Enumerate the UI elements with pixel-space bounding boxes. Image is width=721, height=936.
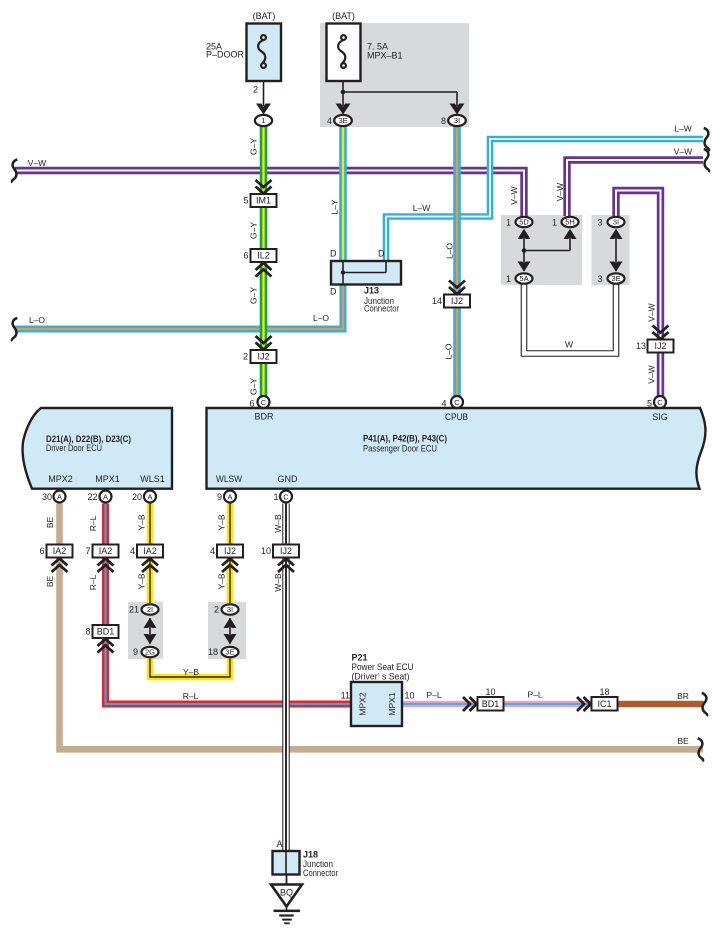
svg-text:8: 8 xyxy=(85,627,90,637)
svg-text:BDR: BDR xyxy=(254,412,274,422)
svg-text:30: 30 xyxy=(42,492,52,502)
svg-text:C: C xyxy=(454,398,460,407)
svg-text:MPX2: MPX2 xyxy=(48,474,73,484)
svg-text:L–O: L–O xyxy=(445,243,455,259)
svg-text:4: 4 xyxy=(441,399,446,409)
svg-text:18: 18 xyxy=(208,647,218,657)
svg-text:IJ2: IJ2 xyxy=(224,546,236,556)
svg-text:WLSW: WLSW xyxy=(216,474,242,484)
svg-text:GND: GND xyxy=(278,474,299,484)
svg-text:14: 14 xyxy=(432,296,442,306)
svg-text:D: D xyxy=(330,287,337,297)
svg-text:R–L: R–L xyxy=(88,515,98,531)
svg-text:J18: J18 xyxy=(303,850,318,860)
svg-text:9: 9 xyxy=(217,492,222,502)
svg-text:W–B: W–B xyxy=(273,514,283,533)
svg-text:G–Y: G–Y xyxy=(248,138,258,155)
svg-text:Power Seat ECU: Power Seat ECU xyxy=(352,662,414,672)
svg-text:4: 4 xyxy=(210,546,215,556)
svg-text:W: W xyxy=(565,340,573,350)
svg-text:MPX2: MPX2 xyxy=(358,692,368,715)
svg-text:BD1: BD1 xyxy=(482,699,500,709)
svg-text:Driver Door ECU: Driver Door ECU xyxy=(46,443,102,453)
svg-text:4: 4 xyxy=(327,116,332,126)
svg-text:P41(A), P42(B), P43(C): P41(A), P42(B), P43(C) xyxy=(363,434,447,444)
svg-text:21: 21 xyxy=(129,605,139,615)
svg-text:BE: BE xyxy=(677,736,689,746)
svg-text:Y–B: Y–B xyxy=(217,514,227,530)
svg-text:IM1: IM1 xyxy=(256,196,271,206)
svg-text:5: 5 xyxy=(647,399,652,409)
svg-text:V–W: V–W xyxy=(509,186,519,204)
svg-text:G–Y: G–Y xyxy=(248,222,258,239)
svg-text:3E: 3E xyxy=(225,648,234,657)
svg-text:IJ2: IJ2 xyxy=(654,341,666,351)
svg-text:18: 18 xyxy=(599,687,609,697)
svg-text:C: C xyxy=(283,493,289,502)
svg-text:A: A xyxy=(227,493,232,502)
svg-text:6: 6 xyxy=(243,251,248,261)
svg-text:R–L: R–L xyxy=(88,574,98,590)
svg-text:3: 3 xyxy=(597,218,602,228)
svg-text:P–L: P–L xyxy=(527,690,542,700)
svg-text:2: 2 xyxy=(253,85,258,95)
svg-text:10: 10 xyxy=(261,546,271,556)
svg-text:A: A xyxy=(103,493,108,502)
svg-text:3I: 3I xyxy=(227,605,233,614)
svg-text:C: C xyxy=(261,398,267,407)
svg-text:1: 1 xyxy=(506,274,511,284)
svg-text:D: D xyxy=(330,249,337,259)
svg-text:CPUB: CPUB xyxy=(445,412,468,422)
svg-text:6: 6 xyxy=(39,546,44,556)
svg-text:P21: P21 xyxy=(352,653,368,663)
svg-text:A: A xyxy=(276,839,282,849)
svg-text:3I: 3I xyxy=(454,116,460,125)
svg-text:Y–B: Y–B xyxy=(217,573,227,589)
svg-text:1: 1 xyxy=(552,218,557,228)
svg-text:1: 1 xyxy=(273,492,278,502)
svg-text:8: 8 xyxy=(441,116,446,126)
svg-text:P–L: P–L xyxy=(426,690,441,700)
svg-text:BQ: BQ xyxy=(280,888,293,898)
svg-text:10: 10 xyxy=(485,687,495,697)
svg-text:5H: 5H xyxy=(565,218,575,227)
svg-text:D: D xyxy=(378,249,385,259)
svg-text:6: 6 xyxy=(249,399,254,409)
svg-text:IJ2: IJ2 xyxy=(280,546,292,556)
svg-text:2: 2 xyxy=(243,352,248,362)
svg-text:J13: J13 xyxy=(364,286,379,296)
svg-text:V–W: V–W xyxy=(674,147,692,157)
svg-text:5D: 5D xyxy=(519,218,529,227)
svg-text:5A: 5A xyxy=(519,274,528,283)
svg-text:2I: 2I xyxy=(147,605,153,614)
svg-text:MPX–B1: MPX–B1 xyxy=(367,51,403,61)
svg-text:G–Y: G–Y xyxy=(248,287,258,304)
svg-text:7: 7 xyxy=(85,546,90,556)
svg-text:4: 4 xyxy=(130,546,135,556)
svg-text:MPX1: MPX1 xyxy=(387,692,397,715)
svg-text:Passenger Door ECU: Passenger Door ECU xyxy=(363,444,437,454)
svg-text:L–W: L–W xyxy=(413,203,430,213)
svg-text:V–W: V–W xyxy=(647,365,657,383)
svg-text:V–W: V–W xyxy=(555,183,565,201)
svg-text:BE: BE xyxy=(45,517,55,529)
svg-text:L–W: L–W xyxy=(674,124,691,134)
svg-text:V–W: V–W xyxy=(646,303,656,321)
svg-text:L–O: L–O xyxy=(313,313,329,323)
svg-text:L–O: L–O xyxy=(29,315,45,325)
svg-text:Y–B: Y–B xyxy=(137,573,147,589)
svg-text:MPX1: MPX1 xyxy=(95,474,120,484)
svg-text:IA2: IA2 xyxy=(99,546,113,556)
svg-text:3E: 3E xyxy=(338,116,347,125)
svg-text:W–B: W–B xyxy=(273,573,283,592)
svg-text:BD1: BD1 xyxy=(97,627,115,637)
svg-text:G–Y: G–Y xyxy=(248,378,258,395)
svg-text:10: 10 xyxy=(405,691,415,701)
svg-text:22: 22 xyxy=(87,492,97,502)
svg-text:3E: 3E xyxy=(611,274,620,283)
svg-text:SIG: SIG xyxy=(652,412,668,422)
svg-text:R–L: R–L xyxy=(183,691,199,701)
svg-text:1: 1 xyxy=(506,218,511,228)
svg-text:2: 2 xyxy=(214,605,219,615)
svg-text:IC1: IC1 xyxy=(597,699,611,709)
svg-text:(BAT): (BAT) xyxy=(253,11,276,21)
svg-text:A: A xyxy=(57,493,62,502)
svg-text:Connector: Connector xyxy=(303,868,338,878)
svg-text:C: C xyxy=(657,398,663,407)
svg-text:9: 9 xyxy=(133,647,138,657)
svg-text:3: 3 xyxy=(597,274,602,284)
svg-text:(Driver’ s Seat): (Driver’ s Seat) xyxy=(352,672,410,682)
svg-text:20: 20 xyxy=(132,492,142,502)
svg-text:Y–B: Y–B xyxy=(137,514,147,530)
svg-text:P–DOOR: P–DOOR xyxy=(206,50,245,60)
svg-text:BR: BR xyxy=(677,691,689,701)
svg-text:3I: 3I xyxy=(613,218,619,227)
svg-text:Y–B: Y–B xyxy=(183,667,199,677)
svg-text:IA2: IA2 xyxy=(143,546,157,556)
svg-text:IJ2: IJ2 xyxy=(451,296,463,306)
svg-text:(BAT): (BAT) xyxy=(332,11,355,21)
svg-text:IA2: IA2 xyxy=(53,546,67,556)
svg-text:BE: BE xyxy=(45,576,55,588)
svg-text:1: 1 xyxy=(261,116,265,125)
svg-text:WLS1: WLS1 xyxy=(140,474,165,484)
svg-text:11: 11 xyxy=(341,691,350,701)
svg-text:Connector: Connector xyxy=(364,304,399,314)
svg-text:A: A xyxy=(147,493,152,502)
svg-text:IL2: IL2 xyxy=(257,251,270,261)
svg-text:L–O: L–O xyxy=(444,343,454,359)
svg-text:2G: 2G xyxy=(145,648,155,657)
svg-text:L–Y: L–Y xyxy=(330,199,340,214)
svg-text:13: 13 xyxy=(636,341,646,351)
svg-text:5: 5 xyxy=(243,196,248,206)
svg-text:IJ2: IJ2 xyxy=(257,352,269,362)
svg-text:V–W: V–W xyxy=(28,158,46,168)
